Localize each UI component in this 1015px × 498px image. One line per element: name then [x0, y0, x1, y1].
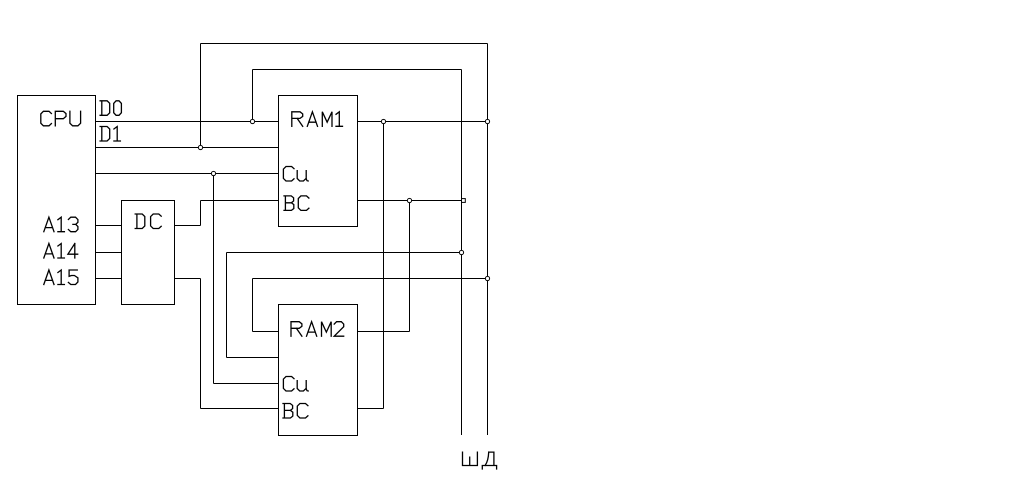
- wire RAM1 D0 output run: [358, 121, 488, 123]
- wire DC output2 run: [175, 278, 201, 280]
- wire D0 CPU-to-RAM1: [96, 121, 279, 123]
- wire DC output1 run: [175, 225, 201, 227]
- wire RAM2 D1 horizontal: [227, 252, 462, 254]
- junction Cu riser: [211, 171, 215, 175]
- junction D0-bus riser: [250, 119, 254, 123]
- label D1: [100, 127, 120, 142]
- wire D1-to-bus2 left riser: [200, 44, 202, 148]
- wire RAM2 D1 riser: [226, 253, 228, 358]
- label BC1: [284, 196, 309, 211]
- wire RAM2 D0 horizontal: [253, 278, 488, 280]
- label Cu2: [283, 377, 308, 392]
- wire RAM2 D1 input run: [227, 357, 279, 359]
- wire Cu riser to RAM2: [213, 174, 215, 384]
- junction RAM1-out riser: [381, 119, 385, 123]
- junction bus2 RAM2 D0: [485, 276, 489, 280]
- wire RAM2 D0 riser: [252, 279, 254, 332]
- wire CPU-to-DC A14: [96, 252, 122, 254]
- label DC: [135, 214, 161, 229]
- label BC2: [283, 404, 308, 419]
- wire RAM1 BC riser to RAM2: [409, 201, 411, 332]
- wire RAM2 BC input run: [201, 408, 279, 410]
- wire D0-to-bus1 left riser: [252, 70, 254, 122]
- label Cu1: [283, 167, 308, 182]
- label RAM2: [291, 322, 344, 337]
- CPU box: [18, 96, 96, 305]
- label RAM1: [292, 112, 343, 127]
- DC box: [122, 201, 175, 305]
- label A14: [44, 244, 78, 259]
- junction RAM1-out bus2: [485, 119, 489, 123]
- wire RAM2 BC output run: [358, 408, 384, 410]
- wire RAM1 BC output run: [358, 200, 462, 202]
- wire RAM1 BC input run: [201, 200, 279, 202]
- wire RAM1-out riser to RAM2 BC: [383, 122, 385, 409]
- wire CPU-to-DC A15: [96, 278, 122, 280]
- label CPU: [41, 111, 81, 126]
- junction bus1 RAM2 D1: [459, 250, 463, 254]
- wire D1 CPU-to-RAM1: [96, 147, 279, 149]
- wire DC output1 riser: [200, 201, 202, 226]
- wire CPU-to-DC A13: [96, 225, 122, 227]
- wire D1-to-bus2 top run: [201, 43, 488, 45]
- wire RAM2 D0 input run: [253, 331, 279, 333]
- label A15: [44, 270, 78, 285]
- wire RAM2 output run: [358, 331, 410, 333]
- junction RAM1 BC riser: [407, 198, 411, 202]
- wire Cu CPU-to-RAM1: [96, 173, 279, 175]
- wire Cu RAM2 input run: [214, 383, 279, 385]
- wire DC output2 riser: [200, 279, 202, 409]
- RAM2 box: [279, 305, 358, 436]
- open terminal square on bus 1: [462, 199, 466, 203]
- wire D0-to-bus1 top run: [253, 69, 462, 71]
- wire data bus line 2: [487, 44, 489, 436]
- label ShD: [463, 452, 497, 469]
- label A13: [44, 217, 78, 232]
- wire data bus line 1: [461, 70, 463, 436]
- junction D1-bus riser: [198, 145, 202, 149]
- label D0: [100, 101, 121, 116]
- RAM1 box: [279, 96, 358, 227]
